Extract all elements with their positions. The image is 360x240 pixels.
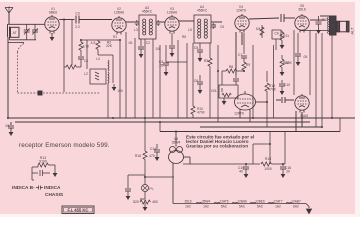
svg-text:100: 100	[155, 47, 161, 51]
svg-text:1000: 1000	[264, 167, 272, 171]
svg-text:35W4: 35W4	[172, 141, 181, 145]
svg-text:CHASIS: CHASIS	[45, 192, 64, 198]
svg-text:L5: L5	[188, 28, 192, 32]
svg-text:456KC: 456KC	[142, 10, 153, 14]
svg-text:1A2: 1A2	[203, 204, 209, 208]
svg-text:35L6: 35L6	[184, 199, 191, 203]
svg-text:.05: .05	[5, 124, 10, 128]
svg-text:R8: R8	[229, 65, 233, 69]
svg-text:4.7K: 4.7K	[83, 45, 90, 49]
svg-text:150K: 150K	[284, 61, 292, 65]
svg-text:6A2: 6A2	[293, 204, 299, 208]
svg-text:L2: L2	[84, 72, 88, 76]
svg-text:5AC: 5AC	[221, 204, 228, 208]
svg-text:1M: 1M	[256, 27, 261, 31]
svg-text:.05: .05	[128, 41, 133, 45]
svg-text:Gracias por su colaboracion: Gracias por su colaboracion	[186, 144, 248, 149]
svg-text:6BE6: 6BE6	[49, 11, 57, 15]
svg-text:R5: R5	[182, 35, 186, 39]
svg-text:R1: R1	[113, 35, 117, 39]
svg-text:12AT7: 12AT7	[273, 199, 282, 203]
svg-text:820: 820	[133, 200, 139, 204]
svg-text:100: 100	[117, 89, 123, 93]
svg-text:VOL: VOL	[211, 89, 218, 93]
svg-text:C4: C4	[84, 59, 88, 63]
svg-text:R18: R18	[265, 157, 271, 161]
svg-text:450: 450	[152, 200, 158, 204]
svg-text:R9: R9	[246, 63, 250, 67]
svg-text:1A2: 1A2	[275, 204, 281, 208]
svg-text:C7: C7	[238, 53, 242, 57]
svg-text:INDICA: INDICA	[44, 185, 61, 191]
svg-text:R15: R15	[322, 18, 328, 22]
svg-text:PL: PL	[149, 187, 153, 191]
svg-text:.05: .05	[303, 55, 308, 59]
svg-text:C6: C6	[194, 79, 198, 83]
svg-text:F.I. 455 KC: F.I. 455 KC	[68, 208, 89, 213]
svg-text:12BA6: 12BA6	[237, 199, 247, 203]
svg-text:R16: R16	[135, 154, 141, 158]
svg-text:20: 20	[286, 170, 290, 174]
svg-text:AT: AT	[13, 31, 17, 35]
svg-text:C3: C3	[75, 12, 79, 16]
svg-text:470K: 470K	[197, 111, 205, 115]
svg-text:C2: C2	[146, 41, 150, 45]
svg-text:35W4: 35W4	[202, 199, 211, 203]
svg-text:C10: C10	[284, 83, 290, 87]
svg-text:receptor Emerson modelo 599.: receptor Emerson modelo 599.	[19, 142, 110, 149]
svg-text:12BA6: 12BA6	[167, 11, 177, 15]
svg-text:R11: R11	[283, 34, 289, 38]
svg-text:12AB7: 12AB7	[291, 199, 301, 203]
svg-text:.05: .05	[159, 64, 164, 68]
svg-text:40: 40	[239, 170, 243, 174]
svg-text:C14: C14	[150, 147, 156, 151]
svg-text:35L6: 35L6	[298, 8, 306, 12]
svg-text:L3: L3	[134, 28, 138, 32]
svg-text:R3: R3	[204, 59, 208, 63]
svg-text:5AC: 5AC	[239, 204, 246, 208]
svg-text:L4: L4	[96, 57, 100, 61]
svg-text:4.5: 4.5	[91, 41, 96, 45]
svg-text:C5: C5	[194, 46, 198, 50]
svg-text:ALT: ALT	[350, 27, 355, 35]
svg-text:12AT6: 12AT6	[234, 112, 244, 116]
svg-text:456KC: 456KC	[197, 9, 208, 13]
svg-text:470: 470	[149, 154, 155, 158]
svg-text:1A2: 1A2	[185, 204, 191, 208]
svg-text:12AT6: 12AT6	[236, 9, 246, 13]
svg-text:22K: 22K	[106, 44, 113, 48]
svg-text:12BA6: 12BA6	[114, 11, 124, 15]
svg-text:5AC: 5AC	[257, 204, 264, 208]
svg-text:INDICA B-: INDICA B-	[12, 185, 35, 191]
svg-text:C9: C9	[274, 31, 278, 35]
svg-text:12BE6: 12BE6	[255, 199, 265, 203]
svg-text:5100: 5100	[39, 160, 47, 164]
svg-text:12AT6: 12AT6	[219, 199, 228, 203]
svg-text:C5: C5	[220, 25, 224, 29]
svg-text:2.2: 2.2	[75, 25, 80, 29]
svg-text:470K: 470K	[268, 88, 277, 92]
